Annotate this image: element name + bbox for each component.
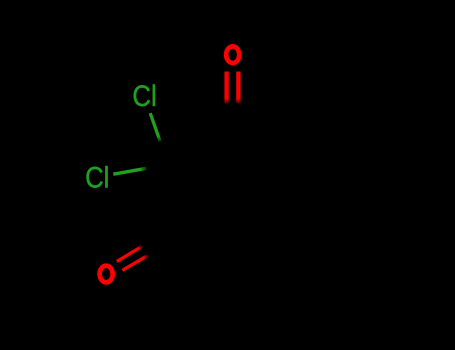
oxygen O1 (top ketone oxygen label) xyxy=(226,46,239,63)
oxygen O2 (lower ketone oxygen label) xyxy=(100,266,113,283)
double bond C3=O2 (two slanted red lines) xyxy=(117,246,148,270)
bond C2-Cl2 (green half-bond) xyxy=(113,168,146,174)
chlorine Cl1 (upper chlorine label) xyxy=(132,79,156,112)
chlorine Cl2 (lower chlorine label) xyxy=(85,161,109,194)
bond C2-Cl1 (green half-bond) xyxy=(150,113,160,141)
double bond C1=O1 (two vertical red lines) xyxy=(227,72,239,104)
svg-text:Cl: Cl xyxy=(132,79,156,112)
svg-text:Cl: Cl xyxy=(85,161,109,194)
